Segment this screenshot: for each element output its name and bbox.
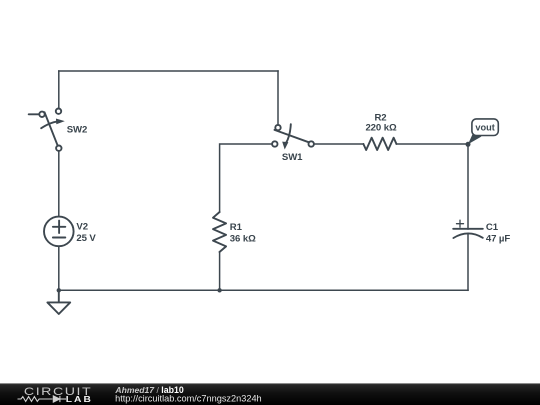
switch SW2	[29, 109, 87, 151]
wire SW1 right to R2	[314, 143, 363, 145]
node vout flag	[468, 119, 498, 144]
V2 minus sign	[53, 237, 65, 239]
wire SW1 left to R1 corner	[220, 144, 273, 212]
node vout junction dot	[466, 142, 471, 147]
node junction dot under R1	[217, 288, 221, 292]
wire bottom rail	[59, 289, 468, 291]
V2 plus sign	[53, 226, 65, 228]
SW2 actuation arc arrow	[41, 121, 57, 128]
vout flag box	[472, 119, 498, 136]
R2 zigzag body	[363, 138, 396, 150]
ground stub	[58, 290, 60, 302]
C1 top plate	[453, 228, 483, 230]
SW1 actuation arc arrow	[286, 124, 291, 143]
svg-text:SW2: SW2	[67, 125, 88, 136]
R1 zigzag body	[213, 212, 226, 252]
svg-text:http://circuitlab.com/c7nngsz2: http://circuitlab.com/c7nngsz2n324h	[115, 393, 262, 403]
switch SW1	[272, 124, 314, 163]
C1 polarity plus sign	[457, 223, 464, 225]
svg-text:vout: vout	[475, 123, 494, 133]
SW1 pin left throw	[272, 141, 277, 146]
SW1 pin top throw	[275, 125, 280, 130]
footer credit text	[114, 385, 261, 403]
wire left drop to SW2	[58, 71, 60, 109]
capacitor C1	[453, 220, 510, 244]
wire vout node to C1	[467, 144, 469, 229]
wire SW1 top drop	[277, 71, 279, 125]
SW2 pin common	[56, 146, 61, 151]
C1 curved bottom plate	[453, 233, 482, 238]
voltage source V2	[44, 217, 96, 247]
footer CircuitLab logo	[18, 385, 93, 403]
SW1 pin right common	[309, 141, 314, 146]
SW2 unused throw lead stub	[29, 113, 40, 115]
svg-text:47 µF: 47 µF	[486, 234, 510, 245]
wire R2 to vout node	[396, 143, 468, 145]
resistor R2	[363, 113, 397, 150]
svg-text:36 kΩ: 36 kΩ	[230, 234, 256, 245]
V2 body circle	[44, 217, 74, 247]
svg-text:LAB: LAB	[66, 395, 93, 404]
svg-text:V2: V2	[76, 222, 88, 233]
wire top rail	[59, 70, 278, 72]
wire C1 to bottom rail	[467, 234, 469, 291]
wire SW2 to V2	[58, 151, 60, 217]
SW2 pin top throw	[56, 109, 61, 114]
svg-text:SW1: SW1	[282, 152, 303, 163]
svg-text:C1: C1	[486, 222, 499, 233]
svg-text:R1: R1	[230, 222, 243, 233]
SW2 arm	[45, 112, 58, 145]
SW1 arm	[275, 130, 309, 142]
wire V2 to bottom rail	[58, 246, 60, 290]
ground triangle	[47, 302, 70, 314]
footer bar	[0, 383, 540, 405]
vout flag pointer	[468, 132, 482, 144]
SW2 pin left throw	[39, 112, 44, 117]
ground	[47, 288, 70, 314]
junction dot at ground node	[57, 288, 61, 292]
svg-text:220 kΩ: 220 kΩ	[365, 122, 397, 133]
resistor R1	[213, 212, 256, 252]
svg-text:25 V: 25 V	[76, 233, 96, 244]
wire R1 bottom	[219, 252, 221, 290]
